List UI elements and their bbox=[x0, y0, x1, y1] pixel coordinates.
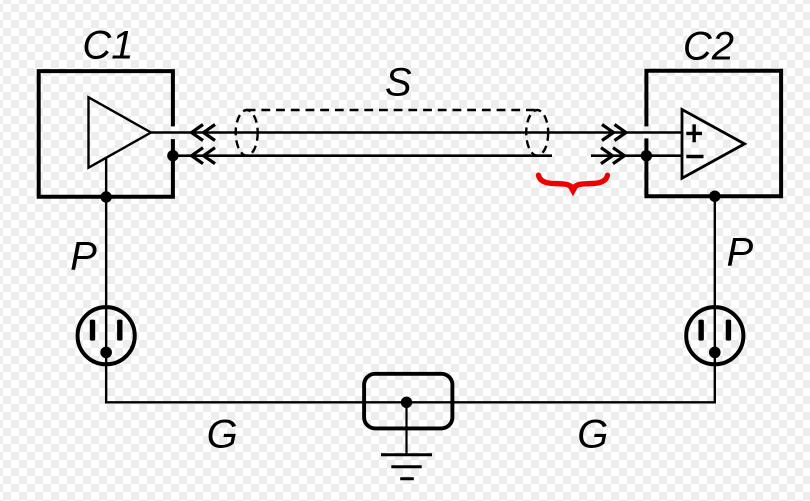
chevron arrows: signal at C1 (pointing left) bbox=[192, 125, 216, 141]
wire: A1 common to C1 chassis bbox=[105, 157, 107, 197]
wire: earth stem bbox=[405, 402, 407, 454]
junction dot: C2 chassis bottom bbox=[709, 191, 720, 202]
wire: C1 to left outlet (P) bbox=[105, 197, 107, 365]
svg-text:P: P bbox=[70, 235, 97, 279]
svg-text:S: S bbox=[385, 60, 412, 104]
earth ground symbol bbox=[381, 455, 432, 479]
wire: C2 to right outlet (P) bbox=[714, 196, 716, 365]
svg-text:G: G bbox=[207, 412, 238, 456]
junction dot: shield to C2 chassis bbox=[641, 150, 652, 161]
shield end ellipse left bbox=[236, 110, 258, 156]
chevron arrows: signal at C2 (pointing right) bbox=[602, 125, 626, 141]
svg-text:P: P bbox=[727, 231, 754, 275]
plus input label bbox=[686, 124, 702, 142]
minus input label bbox=[686, 155, 703, 158]
component box C2 (chassis), gap on left edge at signal feedthrough bbox=[646, 71, 781, 197]
svg-text:C2: C2 bbox=[683, 25, 734, 69]
buffer amplifier A1 bbox=[89, 97, 152, 167]
ground bonding box bbox=[364, 374, 452, 429]
junction dot: C1 chassis bottom bbox=[100, 191, 111, 202]
chevron arrows: shield at C1 (pointing left) bbox=[192, 148, 216, 164]
wire: shield conductor right segment bbox=[591, 154, 682, 157]
shield outline: dashed top line of cable S bbox=[247, 109, 538, 111]
junction dot: ground bus to earth bbox=[401, 397, 412, 408]
shield end ellipse right bbox=[526, 110, 548, 156]
op-amp U2 bbox=[682, 110, 745, 179]
svg-text:C1: C1 bbox=[82, 24, 133, 68]
chevron arrows: shield at C2 (pointing right) bbox=[601, 148, 625, 164]
wire: right outlet to ground bus bbox=[407, 364, 715, 403]
component box C1 (chassis), gap on right edge at signal feedthrough bbox=[39, 71, 173, 197]
junction dot: shield to C1 chassis bbox=[167, 150, 178, 161]
red brace highlight (shield break) bbox=[539, 175, 608, 189]
wire: signal conductor (top cable line) bbox=[151, 131, 682, 134]
wire: shield conductor left segment bbox=[173, 154, 552, 157]
power outlet right bbox=[686, 307, 743, 364]
wire: left outlet to ground bus bbox=[106, 364, 406, 403]
power outlet left bbox=[78, 307, 135, 364]
svg-text:G: G bbox=[577, 412, 608, 456]
